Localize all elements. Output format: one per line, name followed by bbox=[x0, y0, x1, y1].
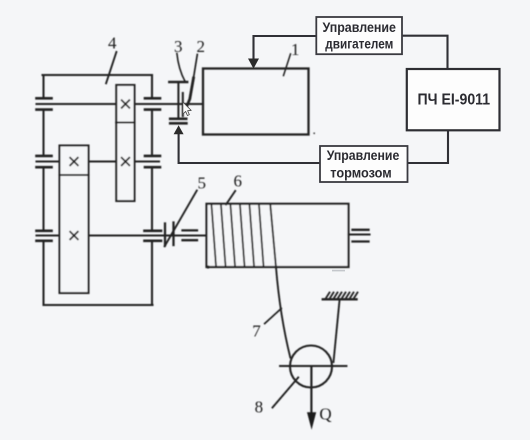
dot artifact bbox=[313, 132, 315, 134]
drum right shaft stub bbox=[349, 233, 370, 235]
gear block shafts 2-3 (pinion and wheel) bbox=[60, 146, 89, 294]
svg-text:5: 5 bbox=[198, 174, 207, 193]
svg-text:двигателем: двигателем bbox=[325, 36, 393, 52]
rope from anchor to pulley bbox=[334, 301, 340, 363]
svg-text:3: 3 bbox=[174, 37, 183, 56]
drum 6 rope coils bbox=[212, 205, 264, 266]
leader line 6 bbox=[226, 191, 235, 205]
leader line 8 bbox=[273, 378, 299, 408]
svg-text:4: 4 bbox=[108, 34, 117, 53]
motor 1 box bbox=[203, 69, 309, 135]
mouse cursor artifact bbox=[183, 102, 191, 115]
brake 3 stem bbox=[177, 83, 179, 118]
frequency converter box ПЧ EI-9011 bbox=[407, 69, 500, 130]
leader line 1 bbox=[284, 54, 291, 76]
drum corner ink blob bbox=[206, 265, 209, 268]
svg-text:Управление: Управление bbox=[322, 19, 396, 35]
svg-text:1: 1 bbox=[291, 40, 300, 59]
shaft 3 (output shaft) bbox=[37, 234, 207, 236]
drum left bearing bars bbox=[183, 230, 198, 240]
drum right bearing bars bbox=[353, 230, 369, 242]
brake 3 top shoe bar bbox=[169, 81, 187, 84]
gearbox housing bottom wall bbox=[44, 304, 153, 306]
arrowhead into brake bbox=[174, 125, 184, 134]
leader line 3 bbox=[177, 54, 185, 82]
pulley 8 bbox=[290, 346, 332, 388]
numeral labels bbox=[108, 34, 332, 424]
drum 6 body bbox=[207, 204, 349, 267]
gearbox housing top wall bbox=[43, 74, 153, 76]
svg-text:Q: Q bbox=[319, 404, 331, 423]
anchor fixed support baseline bbox=[323, 298, 357, 300]
coupling 5 right half bbox=[172, 223, 174, 246]
svg-text:6: 6 bbox=[234, 172, 243, 191]
svg-text:7: 7 bbox=[252, 321, 261, 340]
wire: motor control box to frequency converter bbox=[402, 36, 448, 69]
bearing left wall shaft 1 bbox=[37, 98, 52, 109]
anchor hatching bbox=[326, 293, 358, 299]
brake 3 bottom shoe bars bbox=[170, 119, 186, 124]
gearbox housing right wall bbox=[151, 75, 153, 305]
svg-text:2: 2 bbox=[197, 37, 206, 56]
bearing left wall shaft 3 bbox=[37, 231, 52, 241]
leader line 5 and coupling slash bbox=[165, 191, 197, 247]
leader line 7 bbox=[265, 309, 282, 324]
rope 7 from drum to pulley bbox=[270, 205, 290, 358]
wire: motor control box to motor with arrow bbox=[254, 36, 317, 60]
control box: Управление тормозом bbox=[320, 146, 408, 182]
bearing right wall shaft 2 bbox=[145, 156, 160, 167]
bearing left wall shaft 2 bbox=[37, 156, 52, 167]
control wiring (crisp annotation layer) bbox=[179, 36, 448, 163]
coupling 2 bar bbox=[182, 93, 184, 116]
shaft 2 (intermediate shaft) bbox=[37, 160, 160, 162]
svg-text:ПЧ EI-9011: ПЧ EI-9011 bbox=[418, 92, 491, 109]
gear block shafts 1-2 (pinion and wheel) bbox=[116, 85, 134, 201]
svg-text:Управление: Управление bbox=[327, 147, 400, 163]
leader line 4 bbox=[106, 52, 116, 83]
shaft 1 (input shaft) bbox=[37, 103, 204, 105]
gearbox housing left wall bbox=[42, 75, 44, 305]
wire: frequency converter to brake control box bbox=[408, 130, 449, 163]
pulley axle line bbox=[280, 365, 347, 367]
bearing right wall shaft 3 bbox=[145, 231, 162, 241]
wire: brake control box to brake with arrow bbox=[179, 134, 320, 163]
leader line 2 bbox=[194, 55, 198, 79]
bearing right wall shaft 1 bbox=[145, 98, 160, 109]
coupling 5 left half bbox=[164, 224, 166, 246]
svg-text:8: 8 bbox=[255, 397, 264, 416]
control box: Управление двигателем bbox=[316, 17, 402, 54]
svg-text:тормозом: тормозом bbox=[330, 165, 392, 181]
load arrow Q bbox=[307, 367, 316, 430]
scan smudge artifact bbox=[332, 270, 345, 272]
arrowhead into motor bbox=[248, 59, 259, 69]
